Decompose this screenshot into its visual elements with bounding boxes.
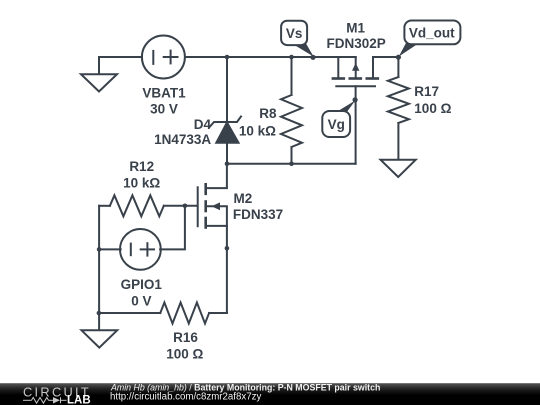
wire — [185, 56, 356, 58]
voltage source VBAT1 — [142, 36, 185, 79]
ground — [82, 330, 118, 347]
svg-text:R16: R16 — [173, 330, 198, 345]
junction GPIO1 minus — [97, 247, 102, 252]
wire — [98, 206, 100, 330]
svg-text:R12: R12 — [129, 159, 154, 174]
svg-text:R8: R8 — [259, 106, 277, 121]
svg-text:R17: R17 — [414, 84, 439, 99]
svg-text:VBAT1: VBAT1 — [142, 85, 186, 100]
transistor M2 — [197, 187, 199, 226]
wire — [99, 57, 142, 74]
svg-text:100 Ω: 100 Ω — [166, 347, 203, 362]
svg-text:LAB: LAB — [67, 395, 91, 405]
svg-text:10 kΩ: 10 kΩ — [123, 175, 160, 190]
junction R8 top — [289, 55, 294, 60]
resistor R16 — [99, 312, 160, 314]
junction M2 source wire — [225, 246, 230, 251]
junction node Vd_out — [396, 55, 401, 60]
diode D4 — [216, 123, 238, 143]
node Vd_out — [399, 21, 461, 57]
svg-text:1N4733A: 1N4733A — [154, 132, 211, 147]
junction R16 / ground — [97, 311, 102, 316]
junction D4 anode / M2 drain — [225, 161, 230, 166]
resistor R12 — [99, 205, 110, 207]
svg-text:FDN337: FDN337 — [233, 207, 283, 222]
svg-text:0 V: 0 V — [131, 294, 151, 309]
svg-text:Vs: Vs — [286, 26, 303, 41]
svg-text:GPIO1: GPIO1 — [121, 277, 163, 292]
junction R12 / M2 gate / GPIO1 — [183, 204, 188, 209]
wire — [226, 143, 228, 164]
junction VBAT1/D4 — [225, 55, 230, 60]
footer bar — [0, 382, 540, 405]
voltage source GPIO1 — [120, 229, 161, 270]
logo doodle — [23, 397, 67, 403]
junction R8 bottom — [289, 161, 294, 166]
svg-text:FDN302P: FDN302P — [326, 36, 385, 51]
ground — [81, 74, 117, 91]
wire — [355, 86, 357, 163]
wire — [373, 56, 398, 58]
resistor R17 — [397, 57, 399, 77]
wire — [160, 206, 185, 250]
svg-text:30 V: 30 V — [150, 101, 178, 116]
node Vg — [322, 101, 355, 138]
svg-text:M1: M1 — [346, 21, 365, 36]
svg-text:100 Ω: 100 Ω — [414, 101, 451, 116]
svg-text:http://circuitlab.com/c8zmr2af: http://circuitlab.com/c8zmr2af8x7zy — [110, 391, 261, 402]
transistor M1 — [337, 57, 339, 77]
node Vs — [281, 21, 313, 57]
wire — [227, 163, 356, 165]
svg-text:Vd_out: Vd_out — [409, 26, 455, 41]
svg-text:D4: D4 — [194, 117, 212, 132]
svg-text:M2: M2 — [234, 191, 253, 206]
junction node Vs — [310, 55, 315, 60]
wire — [226, 57, 228, 122]
resistor R8 — [291, 57, 293, 95]
wire — [99, 248, 121, 250]
ground — [381, 160, 416, 177]
junction node Vg — [353, 97, 358, 102]
svg-text:10 kΩ: 10 kΩ — [239, 123, 276, 138]
svg-text:Vg: Vg — [328, 117, 345, 132]
